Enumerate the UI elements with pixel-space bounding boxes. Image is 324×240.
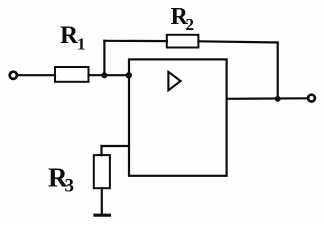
wire R3 horizontal to op-amp non-inverting input	[102, 145, 130, 147]
wire feedback top left to R2	[104, 40, 166, 42]
resistor R2	[167, 35, 199, 48]
node junction dot C (output/feedback)	[275, 96, 281, 102]
svg-text:2: 2	[186, 15, 195, 34]
op-amp triangle symbol	[168, 72, 180, 91]
wire R1 to op-amp inverting input	[89, 74, 130, 76]
wire R3 to ground	[101, 188, 103, 215]
node junction dot A (R1/R2 join)	[101, 72, 107, 78]
label R2	[171, 4, 195, 34]
wire op-amp output	[227, 97, 308, 100]
svg-text:3: 3	[65, 176, 75, 197]
resistor R3	[94, 155, 110, 188]
wire R3 top vertical	[100, 146, 102, 155]
svg-text:1: 1	[77, 34, 86, 53]
wire feedback vertical right	[277, 43, 279, 99]
node junction dot B (inverting input)	[126, 72, 132, 78]
ground	[95, 214, 110, 217]
wire R2 to feedback corner	[199, 41, 278, 42]
op-amp U1 box	[129, 59, 227, 175]
label R1	[60, 22, 86, 53]
resistor R1	[55, 67, 89, 82]
wire feedback vertical left	[103, 41, 105, 76]
wire input to R1	[18, 74, 55, 76]
output terminal	[308, 95, 315, 102]
label R3	[48, 163, 74, 197]
input terminal	[10, 72, 17, 79]
